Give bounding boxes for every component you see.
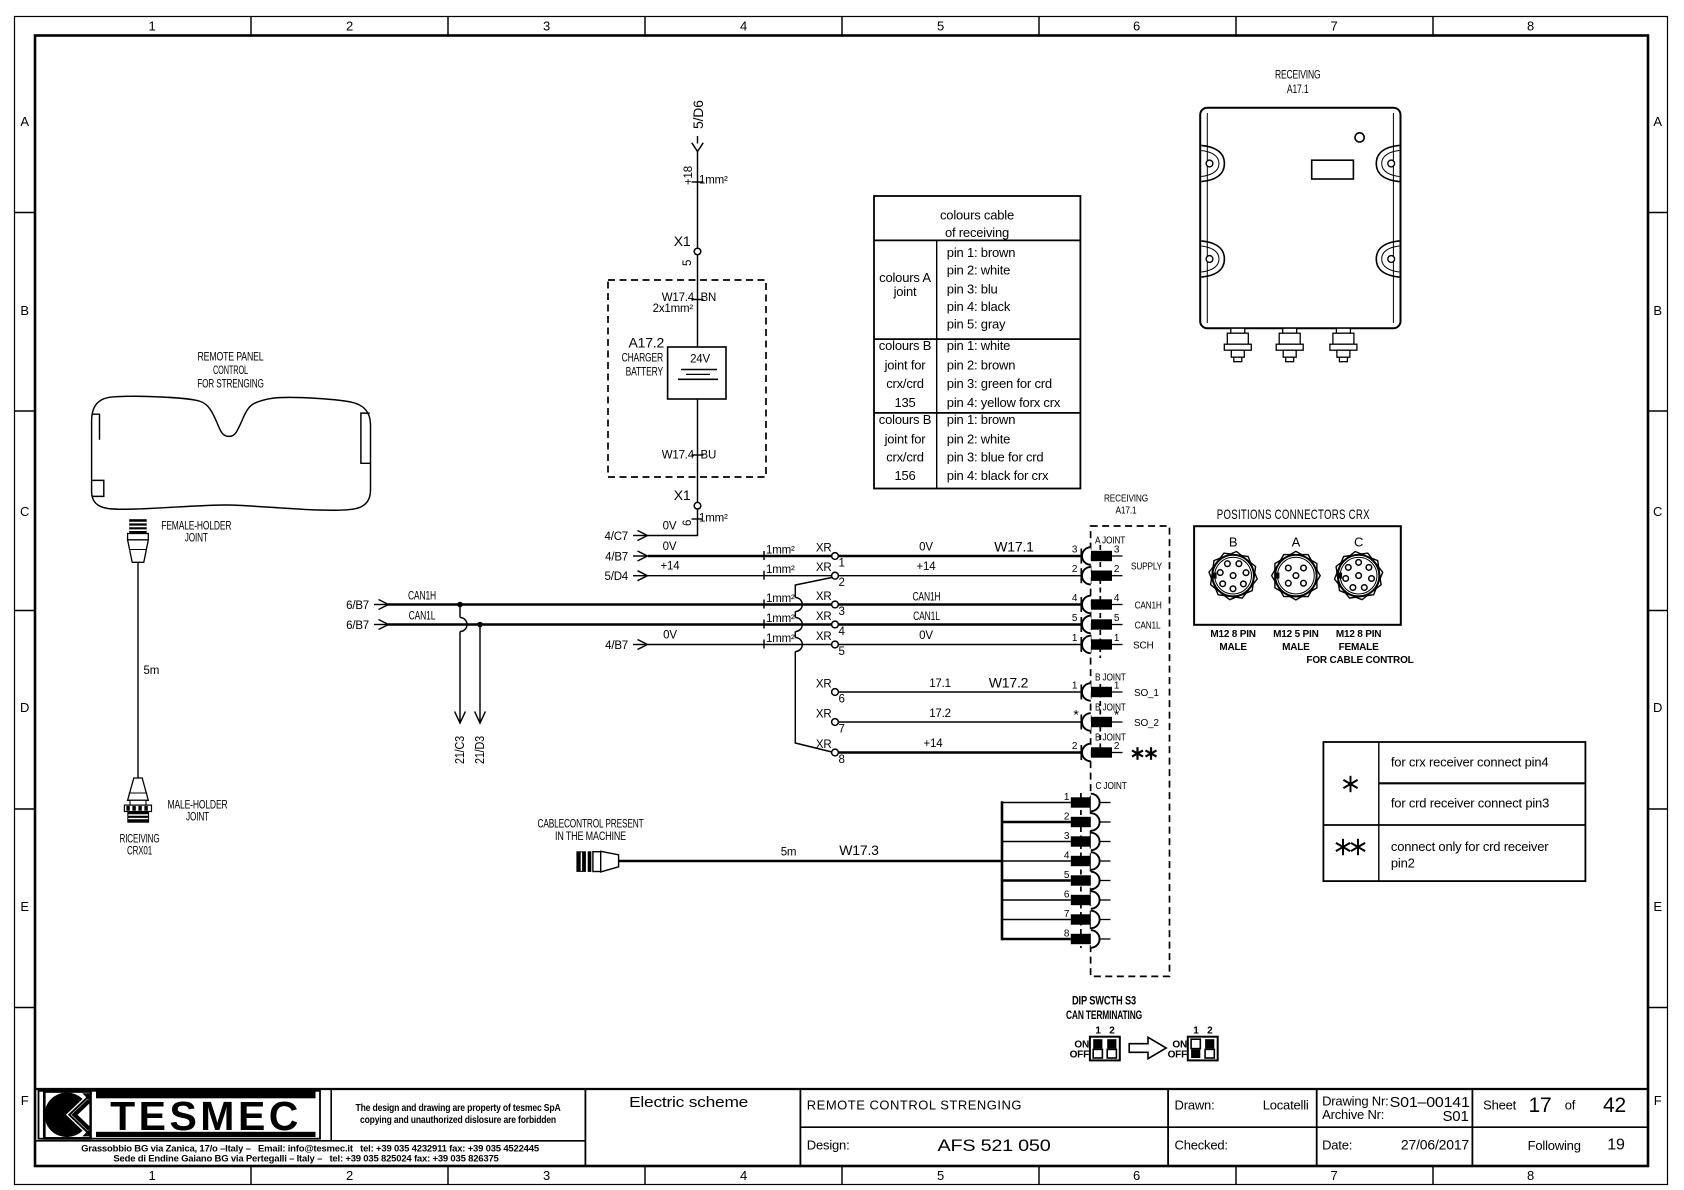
C joint pin 2 — [1071, 817, 1091, 827]
svg-text:pin 4: black: pin 4: black — [947, 299, 1011, 314]
svg-text:pin 2: brown: pin 2: brown — [947, 358, 1015, 373]
svg-text:6: 6 — [1133, 1168, 1140, 1183]
svg-text:XR: XR — [816, 611, 832, 623]
svg-text:1mm²: 1mm² — [766, 545, 795, 557]
svg-text:joint for: joint for — [884, 358, 927, 373]
svg-text:+14: +14 — [924, 738, 944, 750]
wire XR2 to A joint pin2 (+14) — [838, 575, 1082, 577]
svg-text:4/B7: 4/B7 — [605, 640, 628, 652]
C joint pin 6 wire — [1002, 899, 1071, 901]
svg-text:S01: S01 — [1443, 1108, 1469, 1125]
svg-text:C JOINT: C JOINT — [1096, 781, 1127, 792]
cable gland — [1224, 328, 1251, 362]
svg-text:1: 1 — [1072, 681, 1078, 692]
svg-text:MALE: MALE — [1282, 642, 1310, 653]
A joint pin 4 — [1080, 597, 1082, 612]
svg-text:JOINT: JOINT — [185, 533, 208, 545]
legend notes table — [1323, 742, 1585, 881]
svg-text:Electric scheme: Electric scheme — [629, 1094, 748, 1111]
svg-text:7: 7 — [1330, 1168, 1337, 1183]
svg-text:BU: BU — [701, 450, 717, 462]
svg-text:+14: +14 — [661, 561, 681, 573]
svg-text:X1: X1 — [674, 487, 691, 503]
dip switch before — [1070, 1026, 1120, 1061]
svg-text:F: F — [21, 1093, 29, 1108]
panel inner mark lower-left — [92, 480, 104, 496]
wire 0V 4/B7 to XR1 — [633, 555, 647, 557]
svg-text:A17.1: A17.1 — [1116, 506, 1137, 517]
cable gland — [1276, 328, 1303, 362]
svg-text:5/D6: 5/D6 — [690, 100, 706, 129]
svg-text:FOR CABLE CONTROL: FOR CABLE CONTROL — [1306, 655, 1413, 666]
svg-text:2: 2 — [346, 1168, 353, 1183]
svg-text:D: D — [20, 700, 29, 715]
svg-text:Checked:: Checked: — [1175, 1138, 1228, 1153]
svg-text:5: 5 — [839, 646, 845, 658]
wire XR8 to B joint pin2 (+14) — [838, 751, 1082, 754]
svg-text:A17.1: A17.1 — [1287, 84, 1309, 96]
svg-text:1: 1 — [148, 19, 155, 34]
svg-text:C: C — [20, 504, 29, 519]
svg-text:POSITIONS CONNECTORS CRX: POSITIONS CONNECTORS CRX — [1217, 506, 1370, 522]
svg-text:3: 3 — [839, 606, 845, 618]
svg-text:1: 1 — [1193, 1026, 1199, 1037]
junction CAN1H to 21/C3 — [457, 602, 463, 608]
svg-text:XR: XR — [816, 562, 832, 574]
junction CAN1L to 21/D3 — [477, 622, 483, 628]
svg-text:DIP SWCTH S3: DIP SWCTH S3 — [1072, 996, 1136, 1008]
C joint pin 8 — [1071, 934, 1091, 944]
svg-text:2: 2 — [1064, 812, 1070, 823]
svg-text:Date:: Date: — [1322, 1138, 1352, 1153]
svg-text:XR: XR — [816, 739, 832, 751]
svg-text:A17.2: A17.2 — [629, 335, 665, 351]
svg-text:1: 1 — [1095, 1026, 1101, 1037]
svg-text:REMOTE PANEL: REMOTE PANEL — [198, 352, 265, 364]
svg-text:joint for: joint for — [884, 431, 927, 446]
svg-text:1: 1 — [148, 1168, 155, 1183]
svg-text:Drawn:: Drawn: — [1175, 1098, 1215, 1113]
svg-text:B: B — [1229, 535, 1237, 550]
svg-text:21/C3: 21/C3 — [452, 736, 467, 764]
wire W17.3 5m — [619, 860, 1002, 863]
colours cable table — [874, 196, 1080, 489]
svg-text:Design:: Design: — [807, 1138, 850, 1153]
svg-text:7: 7 — [1064, 909, 1070, 920]
svg-text:REMOTE CONTROL STRENGING: REMOTE CONTROL STRENGING — [807, 1098, 1022, 1113]
svg-text:135: 135 — [894, 395, 915, 410]
svg-text:19: 19 — [1607, 1137, 1625, 1154]
svg-text:JOINT: JOINT — [186, 812, 209, 824]
arrow — [1129, 1037, 1166, 1058]
svg-text:CAN1L: CAN1L — [409, 611, 436, 623]
svg-text:MALE-HOLDER: MALE-HOLDER — [168, 800, 228, 812]
svg-text:M12 8 PIN: M12 8 PIN — [1336, 629, 1381, 640]
svg-text:AFS 521 050: AFS 521 050 — [938, 1136, 1051, 1155]
single asterisk — [1350, 776, 1352, 792]
wire +18 — [697, 152, 699, 249]
svg-text:CAN1H: CAN1H — [912, 592, 940, 604]
C joint bus — [1001, 801, 1004, 940]
wire XR4 to A joint pin5 (CAN1L) — [838, 623, 1082, 626]
svg-text:5m: 5m — [144, 665, 160, 677]
svg-text:joint: joint — [893, 284, 917, 299]
arrow 4/C7 — [633, 535, 647, 537]
A joint pin 2 — [1080, 568, 1082, 583]
svg-text:3: 3 — [1072, 545, 1078, 556]
C joint pin 8 wire — [1002, 938, 1071, 941]
svg-text:3: 3 — [1064, 831, 1070, 842]
svg-text:42: 42 — [1603, 1094, 1626, 1117]
cable 5m — [137, 562, 139, 778]
svg-text:connect only for crd receiver: connect only for crd receiver — [1391, 839, 1549, 854]
svg-text:pin 1: brown: pin 1: brown — [947, 412, 1015, 427]
svg-text:1mm²: 1mm² — [766, 564, 795, 576]
wire battery to X1.6 — [697, 399, 699, 502]
svg-text:4/C7: 4/C7 — [605, 531, 629, 543]
svg-text:2x1mm²: 2x1mm² — [653, 303, 694, 315]
C joint pin 5 — [1071, 875, 1091, 885]
svg-text:OFF: OFF — [1070, 1050, 1089, 1061]
svg-text:4: 4 — [1072, 593, 1078, 604]
B joint pin * — [1080, 715, 1082, 730]
svg-text:1: 1 — [1064, 792, 1070, 803]
svg-text:5: 5 — [1072, 613, 1078, 624]
svg-text:X1: X1 — [674, 233, 691, 249]
C joint pin 3 wire — [1002, 841, 1071, 843]
wire 0V 4/B7 to XR5 — [633, 644, 647, 646]
svg-text:CHARGER: CHARGER — [622, 353, 663, 365]
svg-text:CAN TERMINATING: CAN TERMINATING — [1066, 1010, 1142, 1022]
svg-text:for crd receiver connect pin3: for crd receiver connect pin3 — [1391, 796, 1549, 811]
C joint pin 2 wire — [1002, 821, 1071, 824]
panel inner mark upper-left — [92, 414, 99, 440]
svg-text:A: A — [1292, 535, 1301, 550]
svg-text:D: D — [1653, 700, 1662, 715]
wire XR7 to B joint pin* (17.2) — [838, 721, 1082, 723]
svg-text:Archive Nr:: Archive Nr: — [1322, 1107, 1384, 1122]
B joint pin 1 — [1080, 685, 1082, 700]
remote panel control outline — [92, 396, 371, 510]
svg-text:A: A — [20, 114, 29, 129]
svg-text:Sede di Endine Gaiano BG via P: Sede di Endine Gaiano BG via Pertegalli … — [113, 1154, 499, 1165]
svg-text:TESMEC: TESMEC — [110, 1093, 302, 1139]
svg-text:FEMALE: FEMALE — [1339, 642, 1379, 653]
svg-text:4/B7: 4/B7 — [605, 552, 628, 564]
svg-text:W17.2: W17.2 — [989, 675, 1029, 691]
svg-text:pin 2: white: pin 2: white — [947, 431, 1010, 446]
svg-text:SO_1: SO_1 — [1134, 688, 1159, 699]
wire XR3 to A joint pin4 (CAN1H) — [838, 603, 1082, 606]
svg-text:IN THE MACHINE: IN THE MACHINE — [555, 831, 626, 843]
svg-text:5: 5 — [937, 19, 944, 34]
svg-text:colours cable: colours cable — [940, 208, 1014, 223]
svg-text:6: 6 — [839, 694, 845, 706]
wire XR5 to A joint pin1 (SCH) — [838, 644, 1082, 646]
svg-text:3: 3 — [543, 1168, 550, 1183]
svg-text:CRX01: CRX01 — [127, 846, 152, 858]
mounting ear lower-right — [1376, 241, 1399, 277]
svg-text:of: of — [1565, 1098, 1576, 1113]
svg-text:5: 5 — [682, 260, 694, 266]
wire 0V to 4/C7 — [648, 509, 698, 536]
svg-text:2: 2 — [1114, 741, 1120, 752]
svg-text:C: C — [1354, 535, 1363, 550]
svg-text:SCH: SCH — [1133, 641, 1154, 652]
svg-text:7: 7 — [839, 724, 845, 736]
male-holder joint connector — [124, 778, 151, 823]
svg-text:CAN1H: CAN1H — [408, 591, 436, 603]
svg-text:5: 5 — [1114, 613, 1120, 624]
svg-text:SO_2: SO_2 — [1134, 718, 1159, 729]
svg-text:156: 156 — [894, 468, 915, 483]
mounting ear lower-left — [1201, 241, 1224, 277]
svg-text:4: 4 — [1114, 593, 1120, 604]
svg-text:1: 1 — [1114, 633, 1120, 644]
svg-text:B: B — [20, 303, 28, 318]
C joint pin 7 — [1071, 914, 1091, 924]
svg-text:W17.3: W17.3 — [839, 842, 879, 858]
C joint pin 1 wire — [1002, 802, 1071, 804]
svg-text:CONTROL: CONTROL — [213, 365, 249, 377]
panel inner mark right — [361, 413, 370, 463]
svg-text:of receiving: of receiving — [945, 225, 1009, 240]
C joint pin 3 — [1071, 836, 1091, 846]
svg-text:21/D3: 21/D3 — [472, 736, 487, 764]
svg-text:pin 1: white: pin 1: white — [947, 338, 1010, 353]
svg-text:24V: 24V — [690, 354, 710, 366]
svg-text:1mm²: 1mm² — [766, 613, 795, 625]
svg-text:5: 5 — [1064, 870, 1070, 881]
svg-text:E: E — [20, 899, 29, 914]
label plate — [1312, 160, 1354, 179]
svg-text:pin 3: blu: pin 3: blu — [947, 282, 998, 297]
female-holder joint connector — [128, 519, 149, 562]
svg-text:8: 8 — [839, 754, 845, 766]
C joint pin 5 wire — [1002, 879, 1071, 882]
svg-text:A: A — [1653, 114, 1662, 129]
svg-text:6/B7: 6/B7 — [346, 600, 369, 612]
svg-text:XR: XR — [816, 591, 832, 603]
svg-text:M12 5 PIN: M12 5 PIN — [1273, 629, 1318, 640]
svg-text:1mm²: 1mm² — [766, 593, 795, 605]
svg-text:The design and drawing are pro: The design and drawing are property of t… — [356, 1103, 561, 1114]
svg-text:2: 2 — [839, 577, 845, 589]
svg-text:4: 4 — [1064, 851, 1070, 862]
svg-text:1: 1 — [1114, 681, 1120, 692]
svg-text:BATTERY: BATTERY — [626, 367, 664, 379]
wire CAN1L 6/B7 — [374, 624, 388, 626]
svg-text:0V: 0V — [663, 521, 677, 533]
svg-text:1: 1 — [1072, 633, 1078, 644]
svg-text:pin 4: yellow forx crx: pin 4: yellow forx crx — [947, 395, 1061, 410]
svg-text:pin2: pin2 — [1391, 856, 1415, 871]
svg-text:CABLECONTROL PRESENT: CABLECONTROL PRESENT — [538, 819, 644, 831]
C joint pin 4 — [1071, 856, 1091, 866]
svg-text:0V: 0V — [919, 630, 933, 642]
mounting ear upper-right — [1376, 145, 1399, 181]
svg-text:0V: 0V — [919, 542, 933, 554]
svg-text:XR: XR — [816, 679, 832, 691]
svg-text:pin 5: gray: pin 5: gray — [947, 317, 1006, 332]
svg-text:0V: 0V — [663, 541, 677, 553]
svg-text:crx/crd: crx/crd — [886, 376, 924, 391]
svg-text:4: 4 — [839, 626, 846, 638]
svg-text:FEMALE-HOLDER: FEMALE-HOLDER — [161, 521, 231, 533]
svg-text:A JOINT: A JOINT — [1095, 536, 1125, 547]
svg-text:crx/crd: crx/crd — [886, 450, 924, 465]
wire XR6 to B joint pin1 (17.1 W17.2) — [838, 691, 1082, 693]
A joint pin 5 — [1080, 617, 1082, 632]
tesmec logo — [39, 1091, 321, 1139]
svg-text:1mm²: 1mm² — [699, 175, 728, 187]
svg-text:17.1: 17.1 — [929, 678, 951, 690]
svg-text:Following: Following — [1528, 1138, 1581, 1153]
svg-text:2: 2 — [1072, 741, 1078, 752]
title block — [35, 1089, 1648, 1165]
shield wire XR2 to XR8 with hops — [795, 578, 832, 598]
wire CAN1H 6/B7 — [374, 604, 388, 606]
svg-text:W17.4: W17.4 — [662, 450, 695, 462]
svg-text:2: 2 — [346, 19, 353, 34]
svg-text:5m: 5m — [781, 847, 797, 859]
double asterisk — [1342, 839, 1344, 855]
C joint pin 6 — [1071, 895, 1091, 905]
svg-text:6/B7: 6/B7 — [346, 620, 369, 632]
svg-text:W17.1: W17.1 — [994, 539, 1034, 555]
C joint pin 1 — [1071, 797, 1091, 807]
svg-text:B JOINT: B JOINT — [1095, 673, 1126, 684]
svg-text:4: 4 — [740, 1168, 747, 1183]
svg-text:*: * — [1073, 707, 1079, 723]
svg-text:6: 6 — [682, 520, 694, 526]
svg-text:4: 4 — [740, 19, 747, 34]
svg-text:7: 7 — [1330, 19, 1337, 34]
svg-text:1: 1 — [839, 558, 845, 570]
svg-text:pin 1: brown: pin 1: brown — [947, 245, 1015, 260]
svg-text:XR: XR — [816, 709, 832, 721]
svg-text:17.2: 17.2 — [929, 708, 951, 720]
svg-text:CAN1L: CAN1L — [913, 611, 940, 623]
svg-text:17: 17 — [1529, 1094, 1552, 1117]
wire XR1 to A joint pin3 (0V W17.1) — [838, 555, 1082, 558]
svg-text:SUPPLY: SUPPLY — [1131, 562, 1162, 573]
svg-text:2: 2 — [1114, 564, 1120, 575]
svg-text:2: 2 — [1207, 1026, 1213, 1037]
svg-text:colours B: colours B — [879, 338, 931, 353]
svg-text:FOR STRENGING: FOR STRENGING — [197, 379, 264, 391]
svg-text:5/D4: 5/D4 — [605, 571, 629, 583]
svg-text:Sheet: Sheet — [1483, 1098, 1517, 1113]
svg-text:2: 2 — [1072, 564, 1078, 575]
svg-text:XR: XR — [816, 543, 832, 555]
svg-text:5: 5 — [937, 1168, 944, 1183]
svg-text:1mm²: 1mm² — [699, 513, 728, 525]
svg-text:XR: XR — [816, 631, 832, 643]
svg-text:1mm²: 1mm² — [766, 633, 795, 645]
dip switch after — [1168, 1026, 1218, 1061]
svg-text:C: C — [1653, 504, 1662, 519]
svg-text:6: 6 — [1133, 19, 1140, 34]
svg-text:RECEIVING: RECEIVING — [1104, 494, 1148, 505]
svg-text:3: 3 — [1114, 545, 1120, 556]
mounting ear upper-left — [1201, 145, 1224, 181]
double asterisk note at B joint pin2 — [1136, 747, 1138, 760]
svg-text:BN: BN — [701, 292, 717, 304]
cable gland — [1330, 328, 1357, 362]
svg-text:pin 4: black for crx: pin 4: black for crx — [947, 468, 1049, 483]
C joint pin 4 wire — [1002, 860, 1071, 862]
svg-text:colours A: colours A — [879, 270, 931, 285]
svg-text:colours B: colours B — [879, 412, 931, 427]
svg-text:*: * — [1114, 707, 1120, 723]
svg-text:8: 8 — [1527, 19, 1534, 34]
svg-text:pin 3: green for crd: pin 3: green for crd — [947, 376, 1052, 391]
svg-text:CAN1L: CAN1L — [1135, 621, 1161, 632]
svg-text:pin 2: white: pin 2: white — [947, 263, 1010, 278]
svg-text:CAN1H: CAN1H — [1135, 601, 1162, 612]
svg-text:for crx receiver connect pin4: for crx receiver connect pin4 — [1391, 755, 1549, 770]
svg-text:Locatelli: Locatelli — [1263, 1098, 1309, 1113]
svg-text:3: 3 — [543, 19, 550, 34]
svg-text:M12 8 PIN: M12 8 PIN — [1210, 629, 1255, 640]
svg-text:8: 8 — [1527, 1168, 1534, 1183]
svg-text:B: B — [1653, 303, 1661, 318]
wire X1.5 to battery — [697, 255, 699, 347]
svg-text:F: F — [1654, 1093, 1662, 1108]
svg-text:RICEIVING: RICEIVING — [120, 834, 160, 846]
A joint pin 1 — [1080, 637, 1082, 652]
svg-text:+14: +14 — [917, 561, 937, 573]
svg-text:8: 8 — [1064, 929, 1070, 940]
led — [1355, 133, 1364, 142]
A17.2 charger battery dashed box — [608, 280, 766, 477]
A joint pin 3 — [1080, 549, 1082, 564]
svg-text:E: E — [1653, 899, 1662, 914]
svg-text:OFF: OFF — [1168, 1050, 1187, 1061]
svg-text:pin 3: blue for crd: pin 3: blue for crd — [947, 450, 1044, 465]
svg-text:MALE: MALE — [1219, 642, 1247, 653]
C joint pin 7 wire — [1002, 919, 1071, 921]
svg-text:copying and unauthorized dislo: copying and unauthorized dislosure are f… — [360, 1115, 556, 1126]
wire +14 5/D4 to XR2 — [633, 575, 647, 577]
svg-text:27/06/2017: 27/06/2017 — [1401, 1137, 1469, 1153]
svg-text:RECEIVING: RECEIVING — [1275, 70, 1321, 82]
svg-text:6: 6 — [1064, 890, 1070, 901]
svg-text:2: 2 — [1109, 1026, 1115, 1037]
svg-text:0V: 0V — [663, 630, 677, 642]
B joint pin 2 — [1080, 745, 1082, 760]
